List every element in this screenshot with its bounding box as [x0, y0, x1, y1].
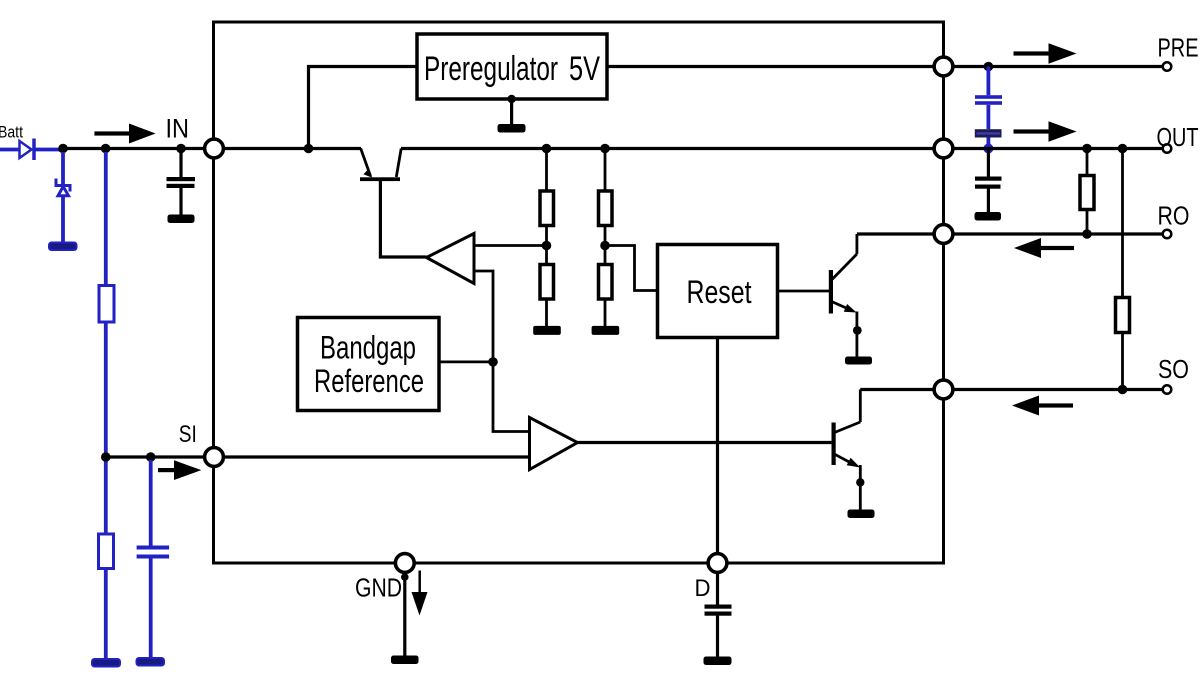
node junction OUT line blue	[983, 144, 993, 154]
terminal PRE	[1163, 62, 1172, 71]
pin PRE	[934, 57, 953, 76]
wire column 2 bottom	[604, 299, 607, 327]
wire Reset output to Q2 base	[778, 290, 830, 293]
wire Q3 collector to SO pin	[860, 388, 933, 391]
pin SI	[205, 448, 224, 467]
wire SI line external	[106, 455, 205, 458]
wire U2 output to Q3 base	[578, 441, 832, 444]
wire C2 to ground (blue)	[149, 559, 153, 659]
svg-text:IN: IN	[166, 114, 190, 144]
capacitor C1 at IN pin	[167, 149, 196, 215]
node junction preregulator feed	[304, 144, 314, 154]
node junction column 2 tap	[600, 241, 610, 251]
wire zener branch (blue)	[61, 152, 65, 186]
pin RO	[934, 225, 953, 244]
ground (GND pin)	[391, 656, 419, 665]
wire IN pin to pass transistor	[224, 147, 362, 150]
resistor R7	[1080, 176, 1094, 210]
resistor R2 (blue)	[99, 534, 114, 569]
svg-text:GND: GND	[355, 572, 402, 602]
node junction OUT to R7	[1082, 144, 1092, 154]
pin D	[708, 554, 727, 573]
ground (column 1)	[533, 326, 561, 335]
node junction preregulator ground	[507, 95, 515, 103]
ground (preregulator)	[498, 124, 526, 133]
capacitor C5 (delay)	[705, 605, 732, 657]
pin GND	[395, 554, 414, 573]
wire zener to ground (blue)	[61, 196, 65, 243]
resistor R5	[599, 191, 613, 226]
resistor R6	[599, 265, 613, 300]
pin SO	[934, 380, 953, 399]
ground (C4)	[975, 212, 1002, 221]
diode D1 (blue, battery input)	[20, 139, 64, 161]
wire R7 top	[1086, 149, 1089, 176]
wire preregulator feed	[309, 67, 418, 149]
wire GND pin to ground	[403, 573, 406, 656]
wire OUT pin to terminal	[953, 147, 1163, 150]
ground (C1)	[168, 215, 195, 224]
wire column 1 middle	[545, 226, 548, 265]
terminal RO	[1163, 230, 1172, 239]
node junction bandgap output	[488, 357, 498, 367]
ground (Q3)	[848, 510, 875, 519]
terminal OUT	[1163, 144, 1172, 153]
svg-text:PRE: PRE	[1158, 33, 1199, 63]
wire preregulator output to PRE pin	[607, 65, 934, 68]
node junction OUT to R8	[1118, 144, 1128, 154]
pin IN	[205, 139, 224, 158]
IC boundary box	[214, 22, 944, 563]
wire R7 bottom	[1086, 210, 1089, 235]
svg-text:RO: RO	[1158, 201, 1190, 231]
wire R1 to SI node (blue)	[104, 322, 108, 457]
arrow current out of OUT	[1014, 121, 1077, 141]
wire R2 to ground (blue)	[104, 569, 108, 660]
svg-text:Preregulator: Preregulator	[424, 50, 558, 88]
wire column 1 bottom	[545, 299, 548, 327]
ground (blue, zener)	[49, 243, 77, 251]
node junction SO line	[1118, 385, 1128, 395]
capacitor C4 (OUT bypass)	[975, 149, 1002, 213]
resistor R4	[540, 265, 554, 300]
wire resistor branch left (blue)	[104, 152, 108, 286]
wire Reset to D pin	[716, 338, 719, 554]
wire SO pin to terminal	[953, 388, 1163, 391]
ground (blue, R2)	[92, 659, 120, 667]
capacitor C3 (blue, PRE-OUT)	[975, 67, 1002, 149]
svg-text:SI: SI	[179, 421, 197, 448]
resistor R3	[540, 191, 554, 226]
wire capacitor branch (blue)	[149, 460, 153, 546]
wire PRE pin to terminal	[953, 65, 1163, 68]
node junction SI line at R branch	[101, 452, 111, 462]
op-amp U2 (sense amp, points right)	[530, 418, 578, 470]
wire IN line external (black)	[63, 147, 205, 150]
transistor Q2 (reset output NPN)	[829, 234, 862, 357]
wire RO pin to terminal	[953, 232, 1163, 235]
ground (C5)	[704, 657, 732, 666]
svg-text:5V: 5V	[569, 50, 600, 88]
wire Q2 collector to RO pin	[857, 232, 934, 235]
wire column 2 tap to Reset	[605, 246, 658, 291]
node junction divider column 1	[542, 144, 552, 154]
node junction on IN line at resistor branch	[101, 144, 111, 154]
wire column 2 top	[604, 149, 607, 191]
svg-text:Reset: Reset	[687, 274, 752, 310]
Preregulator box	[417, 34, 607, 99]
arrow current into SO	[1012, 396, 1073, 416]
transistor Q1 pass (PNP)	[360, 149, 427, 258]
resistor R1 (blue)	[99, 286, 114, 323]
terminal SO	[1163, 385, 1172, 394]
pin OUT	[934, 139, 953, 158]
transistor Q3 (sense output NPN)	[832, 390, 865, 511]
node junction on IN line at zener branch	[58, 144, 68, 154]
node junction PRE cap	[984, 62, 994, 72]
node junction below GND pin	[401, 573, 409, 581]
wire preregulator to ground	[510, 99, 513, 124]
wire R8 top	[1121, 149, 1124, 298]
op-amp U1 (error amp, points left)	[427, 234, 547, 432]
wire column 1 top	[545, 149, 548, 191]
Bandgap Reference box	[298, 318, 440, 411]
arrow current out of GND	[412, 571, 428, 616]
wire SI node to R2 (blue)	[104, 457, 108, 534]
wire Batt input (blue)	[0, 148, 20, 152]
svg-text:SO: SO	[1158, 354, 1189, 384]
arrow current into SI	[158, 460, 201, 480]
svg-text:OUT: OUT	[1157, 122, 1199, 152]
wire D pin to capacitor	[716, 573, 719, 605]
resistor R8	[1116, 298, 1130, 333]
wire R8 bottom	[1121, 333, 1124, 390]
ground (column 2)	[592, 326, 620, 335]
wire SI pin to U2	[224, 455, 530, 458]
wire column 2 middle	[604, 226, 607, 265]
wire bandgap output	[439, 360, 493, 363]
svg-text:D: D	[695, 575, 711, 602]
ground (blue, C2)	[137, 658, 165, 666]
svg-text:Batt: Batt	[0, 123, 23, 142]
zener diode Z1 (blue)	[56, 179, 70, 196]
arrow current out of PRE	[1014, 43, 1077, 63]
ground (Q2)	[845, 357, 872, 365]
svg-text:Bandgap: Bandgap	[320, 330, 416, 366]
capacitor C2 (blue)	[137, 546, 170, 559]
wire pass transistor to OUT pin	[401, 147, 934, 150]
Reset box	[658, 245, 778, 338]
node junction at IN capacitor	[176, 144, 186, 154]
svg-text:Reference: Reference	[314, 363, 424, 399]
node junction column 1 tap	[542, 241, 552, 251]
node junction SI line at capacitor branch	[146, 452, 156, 462]
node junction RO line	[1082, 229, 1092, 239]
arrow current into RO	[1014, 238, 1074, 258]
node junction divider column 2	[600, 144, 610, 154]
arrow current into IN	[94, 124, 155, 144]
